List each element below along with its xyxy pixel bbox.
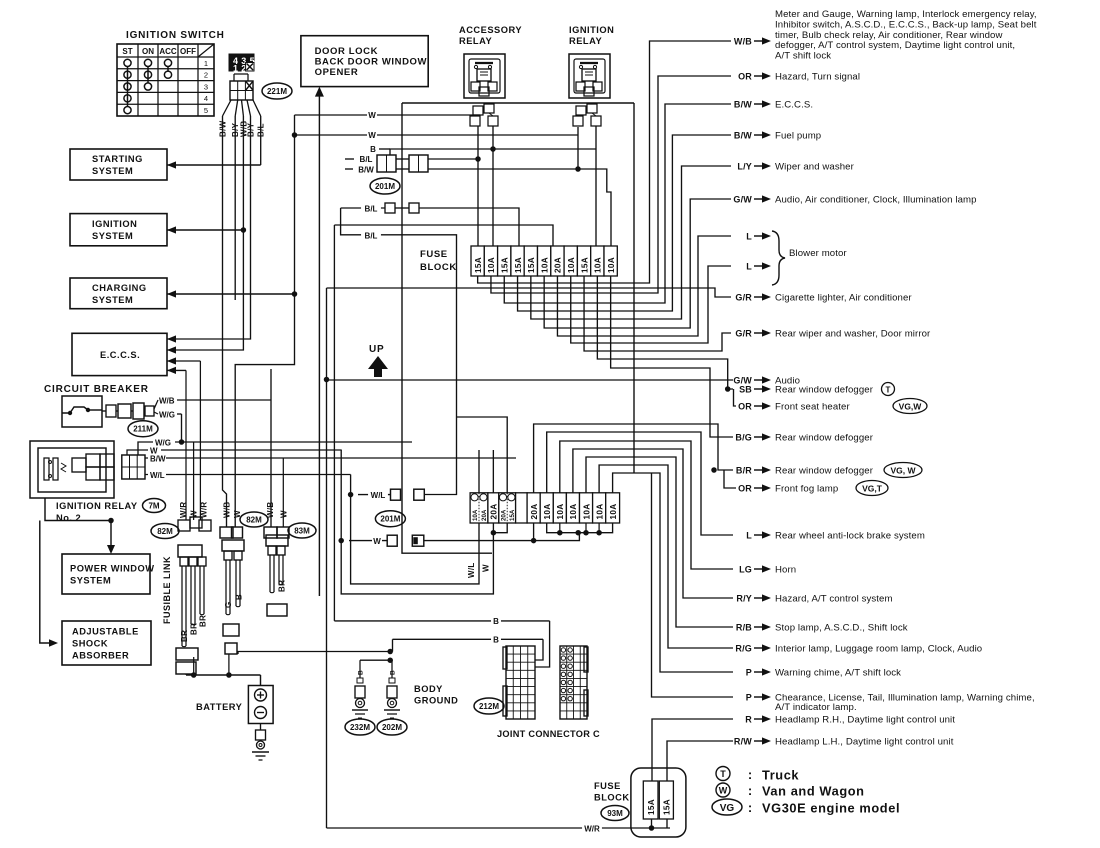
svg-text:W/G: W/G bbox=[159, 411, 175, 420]
svg-text:B/L: B/L bbox=[365, 205, 378, 214]
svg-text:IGNITION: IGNITION bbox=[92, 219, 137, 229]
svg-text:RELAY: RELAY bbox=[569, 36, 602, 46]
svg-text:E.C.C.S.: E.C.C.S. bbox=[775, 100, 813, 111]
svg-text:Fuel pump: Fuel pump bbox=[775, 131, 821, 142]
svg-text:Meter and Gauge, Warning lamp,: Meter and Gauge, Warning lamp, Interlock… bbox=[775, 9, 1037, 20]
svg-text:B/W: B/W bbox=[734, 100, 752, 110]
svg-text:R/G: R/G bbox=[735, 644, 752, 654]
svg-text:10A: 10A bbox=[607, 257, 616, 273]
svg-text:10A: 10A bbox=[609, 504, 618, 520]
svg-text:ACC: ACC bbox=[159, 47, 177, 56]
svg-text:15A: 15A bbox=[580, 257, 589, 273]
svg-text:L: L bbox=[746, 531, 752, 541]
svg-text:L: L bbox=[746, 262, 752, 272]
svg-text:W: W bbox=[481, 564, 490, 572]
svg-text:BR: BR bbox=[278, 580, 287, 592]
svg-text:15A: 15A bbox=[663, 799, 672, 815]
svg-text:defogger, A/T control system,: defogger, A/T control system, Daytime li… bbox=[775, 40, 1015, 51]
svg-text:W/R: W/R bbox=[584, 825, 600, 834]
svg-text:Rear window defogger: Rear window defogger bbox=[775, 466, 874, 477]
svg-text:No. 2: No. 2 bbox=[56, 513, 81, 523]
svg-text:ABSORBER: ABSORBER bbox=[72, 651, 129, 661]
svg-text:Van and Wagon: Van and Wagon bbox=[762, 784, 865, 799]
svg-text:Hazard, Turn signal: Hazard, Turn signal bbox=[775, 72, 860, 83]
svg-text:DOOR LOCK: DOOR LOCK bbox=[315, 46, 378, 57]
svg-text:A/T indicator lamp.: A/T indicator lamp. bbox=[775, 702, 857, 713]
svg-text:93M: 93M bbox=[607, 809, 623, 818]
svg-text:SYSTEM: SYSTEM bbox=[92, 231, 133, 241]
svg-text:OFF: OFF bbox=[180, 47, 196, 56]
svg-text:201M: 201M bbox=[380, 515, 400, 524]
svg-text:CHARGING: CHARGING bbox=[92, 283, 147, 293]
svg-text:20A: 20A bbox=[501, 509, 508, 521]
svg-text:B/R: B/R bbox=[736, 466, 752, 476]
svg-text:IGNITION: IGNITION bbox=[569, 25, 614, 35]
svg-text:SYSTEM: SYSTEM bbox=[92, 166, 133, 176]
svg-text:OR: OR bbox=[738, 402, 752, 412]
svg-text:W: W bbox=[719, 786, 728, 796]
svg-text:W: W bbox=[368, 131, 376, 140]
svg-text:20A: 20A bbox=[481, 509, 488, 521]
svg-text:L: L bbox=[746, 232, 752, 242]
svg-text:Audio, Air conditioner, Clock,: Audio, Air conditioner, Clock, Illuminat… bbox=[775, 195, 977, 206]
svg-text:SHOCK: SHOCK bbox=[72, 639, 108, 649]
svg-text:10A: 10A bbox=[569, 504, 578, 520]
svg-text:1: 1 bbox=[233, 64, 238, 74]
svg-text:R/B: R/B bbox=[736, 623, 752, 633]
svg-text:IGNITION SWITCH: IGNITION SWITCH bbox=[126, 30, 225, 41]
svg-text:B: B bbox=[390, 670, 397, 675]
svg-text:VG30E engine model: VG30E engine model bbox=[762, 801, 900, 816]
svg-text:Warning chime, A/T shift lock: Warning chime, A/T shift lock bbox=[775, 668, 901, 679]
svg-text:10A: 10A bbox=[582, 504, 591, 520]
svg-text:LG: LG bbox=[739, 565, 752, 575]
svg-text:Horn: Horn bbox=[775, 565, 796, 576]
svg-text::: : bbox=[748, 800, 752, 815]
svg-text:T: T bbox=[886, 386, 891, 395]
svg-text:Headlamp L.H., Daytime light c: Headlamp L.H., Daytime light control uni… bbox=[775, 737, 954, 748]
svg-text:B: B bbox=[358, 670, 365, 675]
svg-text:W/R: W/R bbox=[179, 502, 188, 518]
svg-text:1: 1 bbox=[204, 59, 208, 68]
svg-text:83M: 83M bbox=[294, 527, 310, 536]
svg-text:SYSTEM: SYSTEM bbox=[92, 295, 133, 305]
svg-text:BODY: BODY bbox=[414, 684, 443, 694]
svg-text:82M: 82M bbox=[246, 516, 262, 525]
svg-text:20A: 20A bbox=[490, 504, 499, 520]
svg-text:A/T shift lock: A/T shift lock bbox=[775, 51, 831, 62]
svg-text:20A: 20A bbox=[554, 257, 563, 273]
svg-text:Wiper and washer: Wiper and washer bbox=[775, 162, 855, 173]
svg-text:211M: 211M bbox=[133, 425, 153, 434]
svg-text:W/B: W/B bbox=[266, 502, 275, 518]
svg-text:BR: BR bbox=[199, 615, 208, 627]
svg-text:232M: 232M bbox=[350, 723, 370, 732]
svg-text:B/G: B/G bbox=[735, 433, 752, 443]
svg-text:5: 5 bbox=[204, 106, 208, 115]
svg-text:BR: BR bbox=[190, 623, 199, 635]
svg-text:VG, W: VG, W bbox=[890, 466, 916, 476]
svg-text:Rear window defogger: Rear window defogger bbox=[775, 385, 874, 396]
svg-text:timer, Bulb check relay, Air c: timer, Bulb check relay, Air conditioner… bbox=[775, 30, 1002, 41]
svg-text:SB: SB bbox=[739, 385, 752, 395]
svg-text:E.C.C.S.: E.C.C.S. bbox=[100, 350, 140, 360]
svg-text:VG,W: VG,W bbox=[899, 402, 923, 412]
svg-text:FUSE: FUSE bbox=[420, 249, 448, 260]
svg-text:10A: 10A bbox=[487, 257, 496, 273]
svg-text:P: P bbox=[746, 668, 752, 678]
svg-text:Front seat heater: Front seat heater bbox=[775, 402, 850, 413]
svg-text:BACK DOOR WINDOW: BACK DOOR WINDOW bbox=[315, 57, 428, 68]
svg-text:202M: 202M bbox=[382, 723, 402, 732]
svg-text:G/R: G/R bbox=[735, 293, 752, 303]
svg-text:FUSIBLE LINK: FUSIBLE LINK bbox=[162, 556, 172, 624]
svg-text:Cigarette lighter, Air conditi: Cigarette lighter, Air conditioner bbox=[775, 293, 912, 304]
svg-text:Stop lamp, A.S.C.D., Shift loc: Stop lamp, A.S.C.D., Shift lock bbox=[775, 623, 908, 634]
svg-text:212M: 212M bbox=[479, 702, 499, 711]
svg-text:Rear wheel anti-lock brake sys: Rear wheel anti-lock brake system bbox=[775, 531, 925, 542]
svg-text:15A: 15A bbox=[474, 257, 483, 273]
svg-text:W/B: W/B bbox=[734, 37, 752, 47]
svg-text:R/Y: R/Y bbox=[736, 594, 752, 604]
svg-text:3: 3 bbox=[204, 82, 208, 91]
svg-text:Interior lamp, Luggage room la: Interior lamp, Luggage room lamp, Clock,… bbox=[775, 644, 982, 655]
svg-text:10A: 10A bbox=[595, 504, 604, 520]
svg-text:FUSE: FUSE bbox=[594, 781, 621, 791]
svg-text:2: 2 bbox=[204, 71, 208, 80]
svg-text:ACCESSORY: ACCESSORY bbox=[459, 25, 522, 35]
svg-text:B: B bbox=[493, 617, 499, 626]
svg-text:15A: 15A bbox=[527, 257, 536, 273]
svg-text:10A: 10A bbox=[556, 504, 565, 520]
svg-text:10A: 10A bbox=[540, 257, 549, 273]
svg-text:221M: 221M bbox=[267, 87, 287, 96]
svg-text:B/W: B/W bbox=[358, 166, 374, 175]
svg-text:15A: 15A bbox=[647, 799, 656, 815]
svg-text:B: B bbox=[370, 145, 376, 154]
svg-text:OPENER: OPENER bbox=[315, 67, 359, 78]
svg-text:IGNITION RELAY: IGNITION RELAY bbox=[56, 501, 138, 511]
svg-text:15A: 15A bbox=[500, 257, 509, 273]
svg-text:W: W bbox=[368, 111, 376, 120]
svg-text:W: W bbox=[373, 537, 381, 546]
svg-text:T: T bbox=[720, 769, 726, 779]
svg-text:VG,T: VG,T bbox=[862, 484, 883, 494]
svg-text:POWER WINDOW: POWER WINDOW bbox=[70, 564, 155, 574]
svg-text:82M: 82M bbox=[157, 527, 173, 536]
svg-text:Inhibitor switch, A.S.C.D., E.: Inhibitor switch, A.S.C.D., E.C.C.S., Ba… bbox=[775, 19, 1037, 30]
svg-text:Headlamp R.H., Daytime light c: Headlamp R.H., Daytime light control uni… bbox=[775, 715, 955, 726]
svg-text:STARTING: STARTING bbox=[92, 154, 143, 164]
svg-text:Rear wiper and washer, Door mi: Rear wiper and washer, Door mirror bbox=[775, 329, 931, 340]
svg-text:Rear window defogger: Rear window defogger bbox=[775, 433, 874, 444]
svg-text:G/R: G/R bbox=[735, 329, 752, 339]
svg-text::: : bbox=[748, 783, 752, 798]
svg-text::: : bbox=[748, 767, 752, 782]
svg-text:B: B bbox=[235, 594, 244, 600]
svg-text:CIRCUIT BREAKER: CIRCUIT BREAKER bbox=[44, 384, 149, 395]
svg-text:L/Y: L/Y bbox=[737, 162, 752, 172]
svg-text:10A: 10A bbox=[567, 257, 576, 273]
svg-text:B: B bbox=[493, 636, 499, 645]
svg-text:BLOCK: BLOCK bbox=[594, 793, 630, 803]
svg-text:W/L: W/L bbox=[371, 491, 386, 500]
svg-text:B/W: B/W bbox=[734, 131, 752, 141]
svg-text:ADJUSTABLE: ADJUSTABLE bbox=[72, 627, 139, 637]
svg-text:10A: 10A bbox=[472, 509, 479, 521]
svg-text:Hazard, A/T control system: Hazard, A/T control system bbox=[775, 594, 893, 605]
svg-text:SYSTEM: SYSTEM bbox=[70, 576, 111, 586]
svg-text:R: R bbox=[745, 715, 752, 725]
svg-text:JOINT CONNECTOR C: JOINT CONNECTOR C bbox=[497, 729, 600, 739]
svg-text:W/L: W/L bbox=[150, 471, 165, 480]
svg-text:OR: OR bbox=[738, 484, 752, 494]
svg-text:VG: VG bbox=[720, 803, 735, 814]
svg-text:7M: 7M bbox=[148, 502, 159, 511]
svg-text:P: P bbox=[746, 693, 752, 703]
svg-text:Truck: Truck bbox=[762, 768, 799, 783]
svg-text:GROUND: GROUND bbox=[414, 696, 458, 706]
svg-text:B/L: B/L bbox=[360, 155, 373, 164]
svg-text:G: G bbox=[224, 601, 233, 608]
svg-text:OR: OR bbox=[738, 72, 752, 82]
svg-text:G/W: G/W bbox=[733, 195, 752, 205]
svg-text:10A: 10A bbox=[543, 504, 552, 520]
svg-text:W/B: W/B bbox=[159, 397, 175, 406]
svg-text:15A: 15A bbox=[514, 257, 523, 273]
svg-text:B/W: B/W bbox=[150, 455, 166, 464]
svg-text:4: 4 bbox=[204, 94, 208, 103]
svg-text:ST: ST bbox=[122, 47, 132, 56]
svg-text:BATTERY: BATTERY bbox=[196, 702, 243, 712]
svg-text:RELAY: RELAY bbox=[459, 36, 492, 46]
svg-text:ON: ON bbox=[142, 47, 154, 56]
svg-text:20A: 20A bbox=[530, 504, 539, 520]
svg-text:Front fog lamp: Front fog lamp bbox=[775, 484, 838, 495]
svg-text:10A: 10A bbox=[594, 257, 603, 273]
svg-text:15A: 15A bbox=[509, 509, 516, 521]
svg-text:Blower motor: Blower motor bbox=[789, 248, 847, 259]
svg-text:UP: UP bbox=[369, 344, 385, 355]
svg-text:201M: 201M bbox=[375, 182, 395, 191]
svg-text:B/L: B/L bbox=[365, 231, 378, 240]
svg-text:R/W: R/W bbox=[734, 737, 752, 747]
svg-text:BLOCK: BLOCK bbox=[420, 262, 457, 273]
svg-text:W/L: W/L bbox=[467, 562, 476, 578]
svg-text:BR: BR bbox=[180, 630, 189, 642]
